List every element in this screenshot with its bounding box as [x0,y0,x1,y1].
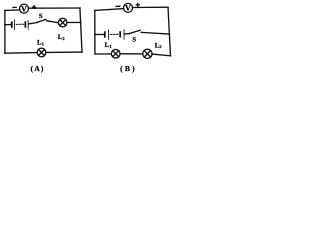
wire: B bottom [95,53,111,55]
wire: A bottom [5,52,37,55]
wire: A middle row battery lead [5,24,11,26]
wire: B voltmeter to top-right corner [132,6,168,8]
switch S (B): contact [140,32,142,34]
lamp L1 (B) [111,49,120,58]
svg-text:(A): (A) [31,64,45,73]
wire: B top-left to voltmeter [95,9,124,11]
svg-text:(B): (B) [120,64,137,73]
svg-text:L1: L1 [105,42,113,49]
battery (A): cell 2 short thick plate [24,22,26,27]
wire: A top-left to voltmeter [5,9,20,12]
wire: B battery to switch [125,33,129,35]
svg-text:L2: L2 [155,42,163,49]
wire: B switch to right edge [142,32,169,34]
svg-text:V: V [21,4,27,13]
wire: A right edge [80,8,82,52]
battery (B): dashed link [110,33,118,35]
wire: A switch to lamp L2 [48,21,59,23]
battery (B): cell 2 long thin plate [123,30,125,39]
label - (A voltmeter minus) [13,6,16,8]
svg-text:S: S [132,37,136,44]
battery (B): cell 2 short thick plate [119,32,121,37]
svg-text:L1: L1 [37,40,45,47]
svg-text:L2: L2 [58,34,66,41]
switch S (B): pivot [129,33,131,35]
battery (B): cell 1 short thick plate [104,32,106,37]
switch S (A): contact [46,20,48,22]
lamp L1 (A) [37,48,46,57]
battery (B): cell 1 long thin plate [108,30,110,39]
switch S (A): pivot [36,22,38,24]
label + (B voltmeter plus) [136,4,139,6]
lamp L2 (B) [143,49,152,58]
wire: B left edge [94,10,96,54]
voltmeter V (A) [20,4,29,13]
wire: B middle row battery lead [95,33,104,35]
label + (A voltmeter plus) [33,6,36,8]
wire: A voltmeter to top-right corner [28,7,80,9]
battery (A): cell 1 long thin plate [13,20,15,30]
svg-text:V: V [125,4,131,13]
wire: A left edge [4,10,6,53]
wire: A lamp L2 to right edge [67,21,80,23]
voltmeter V (B) [124,3,133,12]
switch S (A): blade [37,19,46,22]
svg-text:S: S [39,13,43,20]
switch S (B): blade [130,30,141,33]
lamp L2 (A) [58,18,67,27]
wire: B right edge [168,7,171,56]
wire: A battery to switch [29,23,37,24]
battery (A): cell 1 short thick plate [11,22,13,27]
battery (A): dashed link [16,23,24,25]
battery (A): cell 2 long thin plate [27,21,29,30]
label - (B voltmeter minus) [116,5,120,7]
